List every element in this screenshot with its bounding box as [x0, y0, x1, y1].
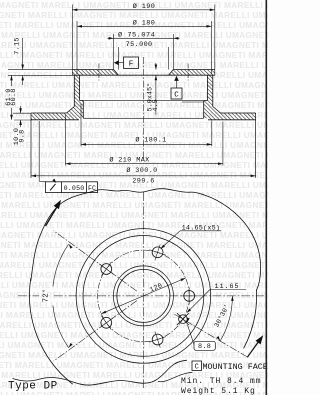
bolt holes (5x dia 14.65) with center ticks — [184, 291, 195, 302]
front view: bolt circle dia 120 (chain line) — [98, 250, 190, 342]
front view: freehand break line at the bottom — [13, 360, 188, 385]
front view: horizontal centerline — [18, 295, 39, 297]
front view: ring inner edge circle dia 180.1 — [76, 229, 211, 364]
svg-text:MAGNETI MARELLI UMAGNETI MAREL: MAGNETI MARELLI UMAGNETI MARELLI UMAGNET… — [0, 91, 268, 100]
runout feature control frame 0.050 FC with leader — [38, 121, 40, 181]
svg-text:MAGNETI MARELLI UMAGNETI MAREL: MAGNETI MARELLI UMAGNETI MARELLI UMAGNET… — [0, 81, 268, 90]
svg-text:MAGNETI MARELLI UMAGNETI MAREL: MAGNETI MARELLI UMAGNETI MARELLI UMAGNET… — [0, 211, 268, 220]
chain line through pin hole continuing to note — [174, 314, 248, 357]
svg-text:C: C — [195, 364, 199, 372]
svg-text:7.15: 7.15 — [13, 37, 21, 55]
front view: secondary break wiggle bottom right — [158, 372, 193, 381]
section hatching: left wall + ring — [31, 75, 83, 120]
section hatching: right wall + ring — [204, 75, 256, 120]
svg-text:Min. TH 8.4 mm: Min. TH 8.4 mm — [181, 377, 262, 386]
svg-text:MAGNETI MARELLI UMAGNETI MAREL: MAGNETI MARELLI UMAGNETI MARELLI UMAGNET… — [0, 191, 268, 200]
svg-text:MAGNETI MARELLI UMAGNETI MAREL: MAGNETI MARELLI UMAGNETI MARELLI UMAGNET… — [0, 291, 268, 300]
datum F: leader, triangle and box — [119, 62, 124, 64]
hat rim outer edges (dia 190) with extension lines going up to dia190/dia180 dims — [71, 5, 73, 76]
svg-text:MAGNETI MARELLI UMAGNETI MAREL: MAGNETI MARELLI UMAGNETI MARELLI UMAGNET… — [0, 51, 268, 60]
svg-text:F: F — [129, 61, 134, 69]
thick leader arrow near mounting face note — [247, 339, 260, 357]
svg-text:9.8: 9.8 — [18, 129, 26, 142]
30deg30min angle dimension arc with arrows and rotated text — [220, 296, 232, 341]
front view: interior step circle — [83, 236, 204, 357]
dia 120 PCD dimension line across center with arrows — [101, 278, 185, 314]
ring OD edges with extension lines down to dia300 dim — [30, 113, 32, 178]
section view: mounting face line — [72, 74, 215, 76]
svg-text:MAGNETI MARELLI UMAGNETI MAREL: MAGNETI MARELLI UMAGNETI MARELLI UMAGNET… — [0, 121, 268, 130]
bolt hole centerlines in section — [98, 64, 100, 81]
svg-text:MAGNETI MARELLI UMAGNETI MAREL: MAGNETI MARELLI UMAGNETI MARELLI UMAGNET… — [0, 241, 268, 250]
pin hole dia 11.65 at -30deg30min marked with X — [179, 315, 188, 324]
dim 4.5 and 5.0x45 chamfer (rotated) — [155, 63, 157, 65]
svg-text:Ø 210 MAX: Ø 210 MAX — [109, 156, 149, 165]
bore chamfer edges and extension lines for dia 75.074 — [113, 34, 115, 70]
svg-text:MAGNETI MARELLI UMAGNETI MAREL: MAGNETI MARELLI UMAGNETI MARELLI UMAGNET… — [0, 221, 268, 230]
front view: outer diameter circle, right arc portion — [244, 290, 257, 349]
svg-text:75.000: 75.000 — [126, 41, 153, 49]
svg-text:Ø 180.1: Ø 180.1 — [135, 136, 166, 145]
svg-text:MAGNETI MARELLI UMAGNETI MAREL: MAGNETI MARELLI UMAGNETI MARELLI UMAGNET… — [0, 101, 268, 110]
radial chain line through hole at 144deg (for 72deg dim) — [54, 231, 137, 292]
svg-text:MAGNETI MARELLI UMAGNETI MAREL: MAGNETI MARELLI UMAGNETI MARELLI UMAGNET… — [0, 131, 268, 140]
datum C in section: box and leader arrow to mounting face — [171, 88, 182, 99]
section hatching: hat plate left — [72, 70, 118, 76]
svg-text:Weight 5.1 Kg: Weight 5.1 Kg — [181, 387, 256, 395]
hat wall outer faces and flare to ring — [73, 75, 75, 106]
page border right edge — [265, 0, 267, 395]
svg-text:MAGNETI MARELLI UMAGNETI MAREL: MAGNETI MARELLI UMAGNETI MARELLI UMAGNET… — [0, 251, 268, 260]
interior step faces — [82, 101, 84, 119]
svg-text:0.050: 0.050 — [64, 185, 85, 192]
svg-text:299.6: 299.6 — [132, 177, 154, 185]
svg-text:72°: 72° — [42, 288, 51, 302]
svg-text:C: C — [174, 92, 179, 100]
front view: vertical centerline — [143, 192, 145, 388]
friction ring top face — [31, 112, 67, 114]
svg-text:60.8: 60.8 — [10, 88, 18, 106]
mounting face note: datum C box — [192, 361, 202, 371]
hat wall inner faces — [79, 75, 81, 100]
svg-text:4.5: 4.5 — [152, 99, 159, 111]
dim 61.0 / 60.8 (rotated) — [11, 75, 13, 86]
thick leader arrow from FC frame to disc face (top left) — [46, 204, 60, 227]
section view: hat top face line — [72, 69, 113, 71]
extension lines for 7.15 thickness — [8, 69, 72, 71]
svg-text:MAGNETI MARELLI UMAGNETI MAREL: MAGNETI MARELLI UMAGNETI MARELLI UMAGNET… — [0, 321, 268, 330]
72 deg angle dimension arc with arrows and rotated text — [53, 244, 69, 286]
svg-text:MAGNETI MARELLI UMAGNETI MAREL: MAGNETI MARELLI UMAGNETI MARELLI UMAGNET… — [0, 261, 268, 270]
svg-text:MAGNETI MARELLI UMAGNETI MAREL: MAGNETI MARELLI UMAGNETI MARELLI UMAGNET… — [0, 141, 268, 150]
friction ring bottom face — [31, 119, 79, 121]
section hatching: hat plate right — [169, 70, 215, 76]
svg-text:MAGNETI MARELLI UMAGNETI MAREL: MAGNETI MARELLI UMAGNETI MARELLI UMAGNET… — [0, 201, 268, 210]
interior step ledge — [80, 100, 84, 102]
section centerline — [143, 57, 145, 159]
front view: bore chamfer circle — [113, 266, 173, 326]
svg-text:8.8: 8.8 — [198, 343, 211, 351]
svg-text:MAGNETI MARELLI UMAGNETI MAREL: MAGNETI MARELLI UMAGNETI MARELLI UMAGNET… — [0, 331, 268, 340]
svg-text:MOUNTING FACE: MOUNTING FACE — [203, 362, 268, 372]
svg-text:MAGNETI MARELLI UMAGNETI MAREL: MAGNETI MARELLI UMAGNETI MARELLI UMAGNET… — [0, 271, 268, 280]
svg-text:Ø 300.0: Ø 300.0 — [126, 166, 157, 175]
front view: freehand break line over the top — [31, 189, 261, 291]
radial chain line through hole at 216deg (for 72deg dim) — [54, 301, 137, 362]
dim 10.0 / 9.8 (rotated) — [20, 106, 22, 109]
interior bottom visible edge — [83, 117, 203, 119]
front view: center bore dia 75 — [117, 269, 170, 322]
front view: outer diameter circle (dia 300), left arc portion — [29, 278, 72, 384]
svg-text:Type DP: Type DP — [8, 380, 58, 392]
label 8.8 in box with leader to pin hole — [194, 341, 215, 350]
